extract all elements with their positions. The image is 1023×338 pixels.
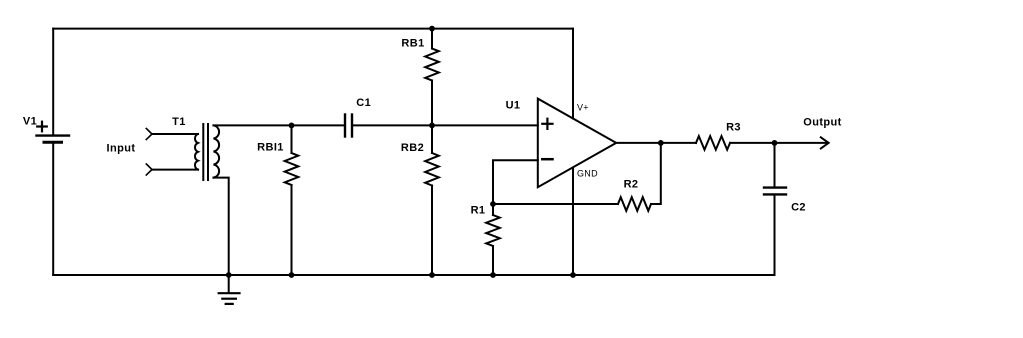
- node T1 ground: [226, 272, 232, 278]
- svg-text:V+: V+: [577, 103, 589, 113]
- svg-text:R1: R1: [471, 205, 486, 217]
- wire T1 secondary to C1: [214, 124, 346, 126]
- node RBI1 ground: [289, 272, 295, 278]
- capacitor C2: [764, 143, 806, 275]
- svg-text:U1: U1: [506, 99, 521, 111]
- wire opamp output: [616, 142, 696, 144]
- node R2 output: [658, 140, 664, 146]
- capacitor C1: [345, 97, 371, 137]
- ground symbol: [219, 275, 240, 304]
- resistor RB1: [401, 29, 438, 126]
- svg-text:V1: V1: [23, 116, 37, 128]
- svg-text:C1: C1: [356, 97, 371, 109]
- svg-text:GND: GND: [577, 168, 598, 178]
- wire C1 to opamp noninverting input: [352, 124, 538, 126]
- wire R3 to output port: [730, 142, 828, 144]
- input port top arrow: [146, 129, 152, 140]
- resistor RBI1: [257, 125, 298, 275]
- output arrow: [821, 137, 829, 148]
- resistor R3: [696, 122, 741, 150]
- battery V1: [23, 116, 69, 143]
- transformer T1 core: [202, 124, 204, 180]
- wire T1 secondary bottom to ground: [214, 178, 229, 275]
- wire inverting input feedback: [493, 160, 538, 204]
- wire left rail upper: [52, 29, 54, 135]
- svg-text:C2: C2: [791, 201, 806, 213]
- resistor RB2: [401, 125, 439, 275]
- svg-text:RBI1: RBI1: [257, 142, 284, 154]
- node GND pin ground: [570, 272, 576, 278]
- wire input top to T1: [152, 133, 198, 135]
- svg-text:RB1: RB1: [401, 38, 424, 50]
- svg-text:T1: T1: [172, 116, 186, 128]
- node RB1-RB2 signal: [429, 123, 435, 129]
- wire R1 node to R2: [493, 203, 618, 205]
- node RB1 top rail: [429, 26, 435, 32]
- wire V+ supply pin: [572, 29, 574, 119]
- wire input bottom to T1: [152, 169, 198, 171]
- op-amp U1: [506, 99, 617, 188]
- resistor R1: [471, 204, 500, 275]
- transformer T1 primary winding: [195, 134, 198, 170]
- wire bottom rail ground net: [53, 274, 774, 276]
- input port bottom arrow: [146, 164, 152, 175]
- wire R2 to output node: [651, 143, 661, 204]
- wire left rail lower: [52, 144, 54, 275]
- transformer T1 secondary winding: [214, 125, 220, 177]
- svg-text:Input: Input: [107, 143, 136, 155]
- svg-text:Output: Output: [803, 117, 841, 129]
- resistor R2: [618, 179, 651, 211]
- node R1 ground: [490, 272, 496, 278]
- svg-text:RB2: RB2: [401, 142, 424, 154]
- wire GND pin: [572, 168, 574, 276]
- node R1-R2 inverting: [490, 201, 496, 207]
- node C2 output: [772, 140, 778, 146]
- node RB2 ground: [429, 272, 435, 278]
- wire top rail: [53, 28, 573, 30]
- svg-text:R3: R3: [726, 122, 741, 134]
- svg-text:R2: R2: [624, 179, 639, 191]
- node RBI1 signal: [289, 123, 295, 129]
